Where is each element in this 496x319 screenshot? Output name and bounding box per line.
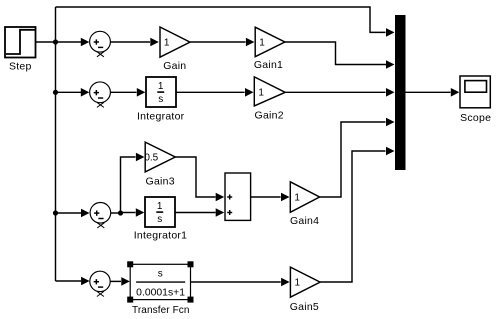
wire node D to Integrator1 xyxy=(121,212,136,214)
svg-text:Gain: Gain xyxy=(163,60,186,72)
selection handle top-right of Transfer Fcn xyxy=(188,261,194,267)
arrowhead into sum S1 xyxy=(81,38,90,47)
arrowhead into Mux input 4 xyxy=(386,118,395,127)
wire S2 to Integrator xyxy=(110,91,136,93)
wire node A to sum S1 xyxy=(56,41,82,43)
wire S4 to Transfer Fcn xyxy=(110,280,121,282)
integrator block Integrator1 xyxy=(145,197,175,227)
wire Mux to Scope xyxy=(406,91,451,93)
integrator block Integrator xyxy=(146,77,176,107)
svg-text:s: s xyxy=(158,269,163,280)
arrowhead into Mux input 5 xyxy=(386,147,395,156)
svg-text:1: 1 xyxy=(295,277,301,288)
svg-text:s: s xyxy=(157,214,162,225)
arrowhead into Gain3 xyxy=(136,153,145,162)
transfer function block Transfer Fcn xyxy=(130,264,190,299)
gain block Gain5 xyxy=(290,267,320,297)
node A junction dot xyxy=(53,39,58,44)
gain block Gain3 xyxy=(145,142,175,172)
wire node B to sum S2 xyxy=(56,91,82,93)
wire Gain1 to Mux input 2 xyxy=(285,42,386,65)
svg-text:1: 1 xyxy=(258,88,264,99)
arrowhead into sum S2 xyxy=(81,88,90,97)
svg-text:1: 1 xyxy=(158,81,164,92)
svg-text:1: 1 xyxy=(294,192,300,203)
arrowhead into Mux input 2 xyxy=(386,60,395,69)
svg-text:Transfer Fcn: Transfer Fcn xyxy=(132,305,190,316)
arrowhead into Gain5 xyxy=(281,278,290,287)
arrowhead into SumBox input 1 xyxy=(216,193,225,202)
wire Gain4 to Mux input 4 xyxy=(320,122,386,197)
wire node D up to Gain3 xyxy=(121,157,136,213)
arrowhead into Gain4 xyxy=(281,193,290,202)
wire main vertical bus xyxy=(55,7,57,281)
svg-text:1: 1 xyxy=(164,37,170,48)
wire Gain2 to Mux input 3 xyxy=(285,91,385,93)
arrowhead into Gain1 xyxy=(246,38,255,47)
gain block Gain xyxy=(160,27,190,57)
selection handle bottom-left of Transfer Fcn xyxy=(127,297,133,303)
arrowhead into sum S4 xyxy=(81,277,90,286)
svg-text:Gain4: Gain4 xyxy=(290,215,319,227)
arrowhead into Gain2 xyxy=(245,88,254,97)
node D junction dot xyxy=(118,210,123,215)
wire Gain5 to Mux input 5 xyxy=(320,151,385,282)
svg-text:1: 1 xyxy=(157,201,163,212)
svg-text:Gain5: Gain5 xyxy=(290,301,319,313)
wire top branch to Mux input 1 xyxy=(56,7,386,32)
arrowhead into Integrator1 xyxy=(136,208,145,217)
wire node C to sum S3 xyxy=(56,212,82,214)
gain block Gain4 xyxy=(290,182,319,213)
mux block Mux xyxy=(395,15,406,170)
sum junction S2 xyxy=(90,82,111,108)
svg-text:0.0001s+1: 0.0001s+1 xyxy=(136,288,185,299)
arrowhead into sum S3 xyxy=(81,209,90,218)
arrowhead into Scope xyxy=(451,88,460,97)
svg-text:0.5: 0.5 xyxy=(144,152,158,163)
wire Gain to Gain1 xyxy=(190,41,246,43)
arrowhead into Mux input 3 xyxy=(386,88,395,97)
arrowhead into Integrator xyxy=(137,88,146,97)
sum junction S3 xyxy=(90,203,111,228)
arrowhead into SumBox input 2 xyxy=(216,208,225,217)
svg-text:Gain3: Gain3 xyxy=(146,176,175,188)
wire main vertical to sum S4 xyxy=(56,280,82,282)
selection handle top-left of Transfer Fcn xyxy=(127,261,133,267)
sum junction S1 xyxy=(90,31,111,56)
svg-text:Step: Step xyxy=(9,61,32,73)
gain block Gain2 xyxy=(254,77,285,106)
node B junction dot xyxy=(53,90,58,95)
selection handle bottom-right of Transfer Fcn xyxy=(188,297,194,303)
arrowhead into Transfer Fcn xyxy=(121,277,130,286)
wire Integrator to Gain2 xyxy=(176,91,245,93)
wire SumBox to Gain4 xyxy=(251,196,281,198)
arrowhead into Gain xyxy=(150,38,159,47)
step source block Step xyxy=(5,27,36,58)
svg-text:s: s xyxy=(158,94,163,105)
svg-text:Gain2: Gain2 xyxy=(255,109,284,121)
wire Gain3 to SumBox input 1 xyxy=(175,157,215,197)
wire Transfer Fcn to Gain5 xyxy=(191,281,281,283)
wire Step output to node A xyxy=(36,41,56,43)
wire S3 to node D xyxy=(111,212,121,214)
svg-text:Gain1: Gain1 xyxy=(254,59,283,71)
sum junction S4 xyxy=(90,271,110,296)
node C junction dot xyxy=(53,210,58,215)
wire S1 to Gain xyxy=(110,41,150,43)
arrowhead into Mux input 1 xyxy=(386,28,395,37)
svg-text:1: 1 xyxy=(259,37,265,48)
svg-text:Integrator1: Integrator1 xyxy=(134,230,188,242)
scope block Scope xyxy=(460,76,490,108)
wire Integrator1 to SumBox input 2 xyxy=(175,212,216,214)
svg-text:Integrator: Integrator xyxy=(137,110,185,122)
gain block Gain1 xyxy=(255,27,285,57)
svg-text:Scope: Scope xyxy=(460,112,491,124)
sum block SumBox xyxy=(225,173,251,220)
